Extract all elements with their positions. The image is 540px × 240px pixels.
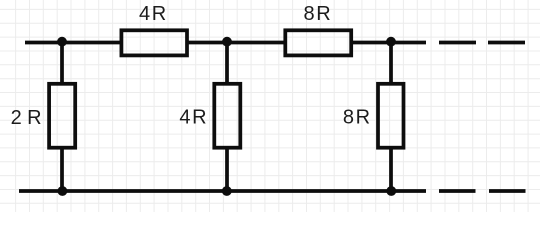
wire branch node B to shunt resistor 4R: [225, 43, 229, 84]
wire top rail dashed continuation: [439, 41, 525, 45]
wire top rail segment 3 (between series resistors 4R and 8R, through node B): [187, 41, 285, 45]
wire bottom rail dashed continuation: [439, 189, 526, 193]
wire shunt resistor 2R to bottom rail: [60, 149, 64, 192]
svg-text:4R: 4R: [139, 3, 168, 25]
wire branch node C to shunt resistor 8R: [389, 43, 393, 84]
svg-text:4R: 4R: [179, 107, 208, 129]
resistor 8R (series, top right) body: [285, 30, 351, 55]
wire top rail segment 1 (left end to node A): [25, 41, 121, 45]
resistor 4R (shunt, middle) body: [214, 84, 240, 148]
resistor 8R (shunt, right) body: [378, 84, 404, 148]
wire top rail segment 2 (node A to resistor 4R series): [121, 41, 122, 45]
wire shunt resistor 8R to bottom rail: [389, 149, 393, 192]
wire shunt resistor 4R to bottom rail: [225, 149, 229, 192]
junction node C (top): [386, 37, 396, 47]
wire top rail segment 4 (series 8R to node C and onward): [352, 41, 427, 45]
resistor 2R (shunt, left) body: [49, 84, 75, 148]
resistor 4R (series, top left) body: [121, 30, 187, 55]
junction node B (top): [222, 37, 232, 47]
svg-text:2R: 2R: [11, 107, 47, 129]
junction node A' (bottom): [58, 186, 68, 196]
svg-text:8R: 8R: [304, 3, 333, 25]
junction node B' (bottom): [222, 186, 232, 196]
wire branch node A to shunt resistor 2R: [60, 43, 64, 84]
junction node C' (bottom): [386, 186, 396, 196]
junction node A (top): [57, 37, 67, 47]
svg-text:8R: 8R: [343, 107, 372, 129]
wire bottom rail: [19, 189, 426, 193]
